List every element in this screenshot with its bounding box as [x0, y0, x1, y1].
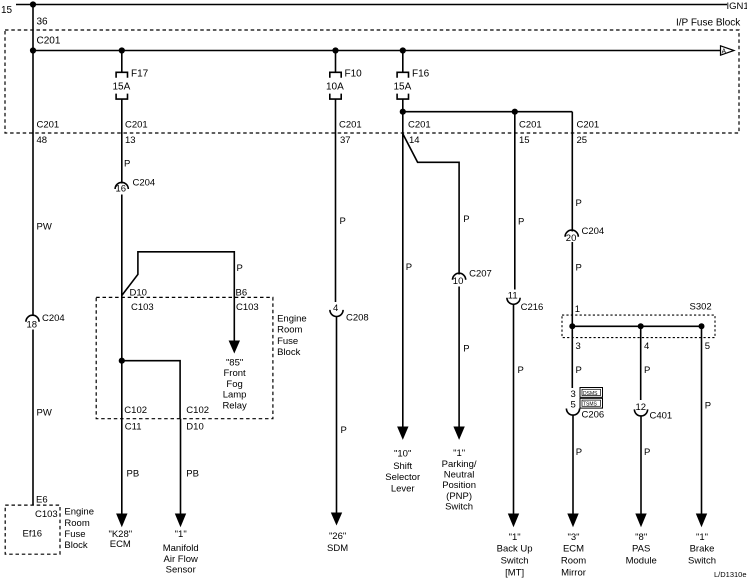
label C201 pin14 — [408, 120, 431, 131]
label 36 — [37, 17, 49, 28]
svg-text:F17: F17 — [131, 69, 149, 80]
svg-text:Block: Block — [277, 347, 300, 358]
wire from C216 to back up switch — [513, 304, 515, 514]
label '85' Front Fog Lamp Relay — [222, 358, 247, 412]
label circuit 15 — [1, 5, 13, 16]
fuse F17 15A — [116, 51, 127, 100]
label 'K28' ECM — [108, 529, 132, 550]
label PW (upper) — [37, 222, 52, 233]
svg-text:Fuse: Fuse — [64, 529, 85, 540]
svg-text:P: P — [463, 343, 469, 354]
svg-text:Switch: Switch — [445, 502, 473, 513]
svg-text:P: P — [576, 447, 582, 458]
svg-text:D10: D10 — [186, 421, 203, 432]
wire IGN1 feed line — [16, 4, 727, 6]
label 4 (C208 pin) — [333, 303, 338, 314]
svg-text:3: 3 — [576, 341, 581, 352]
svg-text:16: 16 — [116, 184, 127, 195]
wire pin4 from S302 to C401 — [640, 326, 642, 400]
wire P from C208 to SDM — [336, 317, 338, 515]
label PB (MAF) — [186, 469, 199, 480]
svg-text:S302: S302 — [690, 302, 712, 313]
label 5 (S302 pin) — [705, 341, 710, 352]
wire from C204-20 to S302 — [571, 242, 573, 326]
label C208 — [346, 313, 369, 324]
label PW (lower) — [37, 408, 52, 419]
label C201 pin37 — [339, 120, 362, 131]
label D10 — [130, 288, 147, 299]
label C206 — [582, 410, 605, 421]
label '10' Shift Selector Lever — [385, 448, 420, 494]
svg-text:Front: Front — [224, 368, 247, 379]
terminal arrow A at bus end — [721, 46, 735, 56]
wire branch to front fog lamp relay B6 — [122, 252, 235, 342]
svg-text:F10: F10 — [345, 69, 363, 80]
label C216 — [521, 302, 544, 313]
svg-text:14: 14 — [409, 135, 420, 146]
junction dot bus at F10 — [332, 47, 338, 53]
label IGN1 — [727, 1, 747, 12]
label 16 — [116, 184, 127, 195]
svg-text:Mirror: Mirror — [561, 567, 586, 578]
svg-text:25: 25 — [577, 135, 588, 146]
wire pin3 from S302 — [571, 326, 573, 388]
svg-text:Module: Module — [626, 556, 657, 567]
label 18 — [27, 319, 38, 330]
svg-text:"8": "8" — [635, 532, 647, 543]
wire P from C204-16 to engine room fuse block D10 — [121, 195, 123, 361]
label P (brake) — [705, 401, 711, 412]
label Engine Room Fuse Block (right of box) — [277, 313, 307, 358]
label C102 (D10) — [186, 405, 209, 416]
label 3 (C206 pin) — [571, 389, 576, 400]
svg-text:P: P — [124, 159, 130, 170]
svg-text:3: 3 — [571, 389, 576, 400]
svg-text:D10: D10 — [130, 288, 147, 299]
svg-text:C401: C401 — [650, 410, 673, 421]
label F10 — [345, 69, 363, 80]
svg-text:Fog: Fog — [226, 379, 242, 390]
svg-text:"3": "3" — [567, 532, 579, 543]
label F17 — [131, 69, 149, 80]
connector C216 pin 11 arc — [507, 298, 520, 305]
wire internal branch line to pins 15 and 25 — [403, 111, 573, 113]
svg-text:ECM: ECM — [110, 539, 131, 550]
connector C204 pin 20 arc — [565, 230, 578, 237]
arrow to back up switch — [508, 514, 519, 528]
svg-text:DSMS: DSMS — [583, 391, 598, 397]
svg-text:20: 20 — [566, 233, 577, 244]
junction dot bus left — [30, 47, 36, 53]
svg-text:P: P — [644, 365, 650, 376]
svg-text:C204: C204 — [133, 178, 156, 189]
fuse F10 10A — [330, 51, 341, 100]
svg-text:Engine: Engine — [277, 313, 307, 324]
svg-text:SDM: SDM — [327, 543, 348, 554]
label 48 — [37, 135, 48, 146]
svg-text:Switch: Switch — [688, 556, 716, 567]
label C201 pin13 — [125, 120, 148, 131]
svg-text:"1": "1" — [453, 448, 465, 459]
svg-text:"1": "1" — [509, 532, 521, 543]
label P (relay branch) — [237, 263, 243, 274]
label P (shift selector) — [406, 262, 412, 273]
svg-text:P: P — [705, 401, 711, 412]
svg-text:P: P — [237, 263, 243, 274]
label PB (ECM) — [127, 469, 140, 480]
svg-text:E6: E6 — [36, 495, 48, 506]
svg-text:15: 15 — [519, 135, 530, 146]
svg-text:C207: C207 — [469, 268, 492, 279]
svg-text:P: P — [463, 214, 469, 225]
label C103 (D10) — [131, 302, 154, 313]
svg-text:36: 36 — [37, 17, 49, 28]
svg-text:[MT]: [MT] — [505, 567, 524, 578]
svg-text:P: P — [576, 198, 582, 209]
label '8' PAS Module — [626, 532, 657, 567]
label C204 (pin 20) — [582, 226, 605, 237]
connector C401 pin 12 arc — [634, 409, 647, 416]
arrow to ECM room mirror — [567, 514, 578, 528]
wire branch from pin14 to PNP switch — [403, 134, 459, 275]
label '1' Brake Switch — [688, 532, 716, 567]
arrow to PAS module — [635, 514, 646, 528]
svg-text:Lever: Lever — [391, 483, 415, 494]
label 4 (S302 pin) — [644, 341, 649, 352]
svg-text:10A: 10A — [326, 82, 344, 93]
svg-text:C201: C201 — [125, 120, 148, 131]
svg-text:C201: C201 — [577, 120, 600, 131]
label 20 (C204 pin) — [566, 233, 577, 244]
label '1' Parking/Neutral Position (PNP) Switch — [442, 448, 477, 513]
svg-text:18: 18 — [27, 319, 38, 330]
label I/P Fuse Block — [676, 18, 741, 29]
label P (PAS upper) — [644, 365, 650, 376]
svg-text:I/P Fuse Block: I/P Fuse Block — [676, 18, 741, 29]
connector C208 pin 4 arc — [330, 310, 343, 317]
wire splice bus S302 — [572, 325, 701, 327]
label 25 — [577, 135, 588, 146]
wire P from C206 to ECM room mirror — [572, 415, 574, 515]
svg-text:C206: C206 — [582, 410, 605, 421]
svg-text:P: P — [576, 263, 582, 274]
arrow to shift selector lever — [397, 427, 408, 440]
label '1' Back Up Switch [MT] — [497, 532, 533, 578]
wire P from C401 to PAS module — [640, 416, 642, 515]
svg-text:C201: C201 — [408, 120, 431, 131]
engine room fuse block Ef16 dashed box — [5, 505, 60, 554]
label C207 — [469, 268, 492, 279]
svg-text:A: A — [722, 49, 727, 56]
svg-text:C103: C103 — [35, 509, 58, 520]
junction dot bus at F17 — [119, 47, 125, 53]
wire fused ignition bus inside I/P fuse block — [33, 50, 721, 52]
svg-text:(PNP): (PNP) — [446, 491, 472, 502]
svg-text:Engine: Engine — [64, 507, 94, 518]
wire PB to ECM — [121, 419, 123, 515]
connector C204-18 arc — [26, 315, 39, 322]
svg-text:4: 4 — [333, 303, 338, 314]
svg-text:PB: PB — [127, 469, 140, 480]
label C201 (wire 36 entering block) — [37, 36, 61, 47]
wire PB to MAF sensor — [180, 419, 182, 515]
svg-text:P: P — [518, 365, 524, 376]
label 1 (S302 pin in) — [575, 304, 580, 315]
svg-text:Room: Room — [561, 556, 586, 567]
svg-text:PB: PB — [186, 469, 199, 480]
label C204 (pin 18) — [42, 313, 65, 324]
svg-text:Shift: Shift — [393, 461, 412, 472]
label 15A (F16) — [394, 82, 412, 93]
wire from C207 to PNP switch — [458, 287, 460, 429]
wire PW from C204-18 down to E6 — [32, 330, 34, 506]
junction dot S302 mid — [638, 323, 644, 329]
arrow to PNP switch — [453, 427, 464, 440]
svg-text:C208: C208 — [346, 313, 369, 324]
arrow to brake switch — [696, 514, 707, 528]
svg-text:Block: Block — [64, 540, 87, 551]
svg-text:Parking/: Parking/ — [442, 459, 477, 470]
svg-text:Selector: Selector — [385, 472, 420, 483]
label P (PNP lower) — [463, 343, 469, 354]
svg-text:13: 13 — [125, 135, 136, 146]
wire P from F10 to C208 — [335, 99, 337, 302]
junction dot bus at F16 — [400, 47, 406, 53]
svg-text:L/D1310e: L/D1310e — [714, 570, 747, 578]
svg-text:11: 11 — [508, 290, 518, 301]
svg-text:15A: 15A — [113, 82, 131, 93]
connector C207 pin 10 arc — [453, 273, 466, 280]
label C401 — [650, 410, 673, 421]
svg-text:C201: C201 — [37, 120, 60, 131]
wire P from C201-25 to C204-20 — [571, 112, 573, 232]
svg-text:Back Up: Back Up — [497, 544, 533, 555]
svg-text:C103: C103 — [236, 302, 259, 313]
svg-text:P: P — [406, 262, 412, 273]
svg-text:Position: Position — [442, 480, 476, 491]
label P (backup lower) — [518, 365, 524, 376]
svg-text:ECM: ECM — [563, 544, 584, 555]
svg-text:F16: F16 — [412, 69, 430, 80]
label 3 (S302 pin) — [576, 341, 581, 352]
label D10 (C102) — [186, 421, 203, 432]
junction dot at IGN1 tap — [30, 1, 36, 7]
option box TSMS lower — [580, 398, 603, 408]
wire branch to C102-D10 — [122, 361, 180, 419]
wire drop from IGN1 line into I/P fuse block — [32, 5, 34, 51]
svg-text:P: P — [340, 216, 346, 227]
svg-text:Room: Room — [277, 325, 302, 336]
svg-text:Air Flow: Air Flow — [164, 554, 198, 565]
connector C204 pin 16 arc — [115, 182, 128, 189]
svg-text:15A: 15A — [394, 82, 412, 93]
svg-text:C204: C204 — [42, 313, 65, 324]
label P (mirror top) — [576, 198, 582, 209]
label 37 — [340, 135, 351, 146]
label C11 — [125, 421, 142, 432]
fuse F16 15A — [397, 51, 408, 100]
label 10 (C207 pin) — [453, 276, 464, 287]
svg-text:PAS: PAS — [632, 544, 650, 555]
label C201 pin48 — [37, 120, 60, 131]
label C201 pin15 — [519, 120, 542, 131]
svg-text:Relay: Relay — [222, 400, 247, 411]
label '26' SDM — [327, 531, 348, 554]
label 5 (C206 pin) — [571, 400, 576, 411]
svg-text:10: 10 — [453, 276, 464, 287]
wire P from C201-15 to C216 — [514, 112, 516, 290]
wire P from F17 down to C204-16 — [121, 99, 123, 183]
engine room fuse block dashed box — [96, 297, 273, 418]
svg-text:"10": "10" — [394, 448, 411, 459]
arrow to MAF sensor — [175, 514, 186, 528]
label P (mirror pin3) — [576, 365, 582, 376]
label 15 — [519, 135, 530, 146]
svg-text:PW: PW — [37, 222, 52, 233]
svg-text:P: P — [341, 425, 347, 436]
junction dot S302 left — [569, 323, 575, 329]
wire pin5 from S302 to brake switch — [701, 326, 703, 514]
label 11 (C216 pin) — [508, 290, 518, 301]
label P (SDM upper) — [340, 216, 346, 227]
svg-text:4: 4 — [644, 341, 649, 352]
label B6 — [236, 288, 248, 299]
svg-text:"1": "1" — [175, 529, 187, 540]
svg-text:Brake: Brake — [690, 544, 715, 555]
svg-text:Lamp: Lamp — [223, 390, 247, 401]
label P (backup upper) — [518, 217, 524, 228]
label 12 (C401 pin) — [636, 402, 647, 413]
I/P Fuse Block dashed box — [5, 30, 739, 133]
label '1' Manifold Air Flow Sensor — [163, 529, 199, 576]
svg-text:37: 37 — [340, 135, 351, 146]
label 13 — [125, 135, 136, 146]
svg-text:5: 5 — [571, 400, 576, 411]
label E6 — [36, 495, 48, 506]
label C201 pin25 — [577, 120, 600, 131]
svg-text:C201: C201 — [519, 120, 542, 131]
svg-text:C102: C102 — [186, 405, 209, 416]
wire C11 through fuse block — [121, 361, 123, 419]
svg-text:Neutral: Neutral — [444, 469, 475, 480]
arrow to front fog lamp relay — [229, 341, 240, 354]
label P (SDM lower) — [341, 425, 347, 436]
label P (wire 13) — [124, 159, 130, 170]
label Engine Room Fuse Block (left box) — [64, 507, 94, 552]
label drawing number L/D1310e — [714, 570, 747, 578]
label P (PNP upper) — [463, 214, 469, 225]
svg-text:C216: C216 — [521, 302, 544, 313]
svg-text:P: P — [644, 447, 650, 458]
junction dot S302 right — [699, 323, 705, 329]
svg-text:C201: C201 — [339, 120, 362, 131]
label 10A (F10) — [326, 82, 344, 93]
svg-text:Switch: Switch — [501, 556, 529, 567]
label 15A (F17) — [113, 82, 131, 93]
splice S302 dashed box — [562, 315, 715, 338]
svg-text:48: 48 — [37, 135, 48, 146]
svg-text:TSMS: TSMS — [583, 402, 598, 408]
wire PW from C201-48 down to C204-18 — [32, 51, 34, 317]
label P (mirror lower) — [576, 447, 582, 458]
label F16 — [412, 69, 430, 80]
label C204 (pin 16) — [133, 178, 156, 189]
label 14 — [409, 135, 420, 146]
svg-text:Ef16: Ef16 — [23, 529, 43, 540]
label P (mirror mid) — [576, 263, 582, 274]
svg-text:"1": "1" — [696, 532, 708, 543]
arrow to SDM — [331, 513, 342, 526]
svg-text:C102: C102 — [124, 405, 147, 416]
svg-text:IGN1: IGN1 — [727, 1, 747, 12]
svg-text:C201: C201 — [37, 36, 61, 47]
svg-text:"26": "26" — [329, 531, 346, 542]
svg-text:"85": "85" — [226, 358, 243, 369]
svg-text:P: P — [518, 217, 524, 228]
connector C206 arc — [566, 409, 579, 416]
svg-text:12: 12 — [636, 402, 647, 413]
label C102 (C11) — [124, 405, 147, 416]
svg-text:Sensor: Sensor — [166, 564, 196, 575]
option box DSMS upper — [580, 388, 603, 398]
label '3' ECM Room Mirror — [561, 532, 586, 578]
svg-text:Manifold: Manifold — [163, 543, 199, 554]
label C103 (Ef16 box) — [35, 509, 58, 520]
svg-text:C11: C11 — [125, 421, 142, 432]
label C103 (B6) — [236, 302, 259, 313]
label S302 — [690, 302, 712, 313]
svg-text:C103: C103 — [131, 302, 154, 313]
junction dot internal node pin15 — [512, 109, 518, 115]
svg-text:P: P — [576, 365, 582, 376]
junction dot inside engine room fuse block — [119, 358, 125, 364]
svg-text:15: 15 — [1, 5, 13, 16]
svg-text:Fuse: Fuse — [277, 336, 298, 347]
junction dot internal node at F16 — [400, 109, 406, 115]
label P (PAS lower) — [644, 447, 650, 458]
svg-text:1: 1 — [575, 304, 580, 315]
svg-text:5: 5 — [705, 341, 710, 352]
arrow to ECM — [116, 514, 127, 528]
svg-text:C204: C204 — [582, 226, 605, 237]
wire F16 output to internal node — [402, 99, 404, 112]
label Ef16 — [23, 529, 43, 540]
wire P from C201-14 to shift selector lever — [402, 112, 404, 428]
svg-text:PW: PW — [37, 408, 52, 419]
svg-text:Room: Room — [64, 518, 89, 529]
